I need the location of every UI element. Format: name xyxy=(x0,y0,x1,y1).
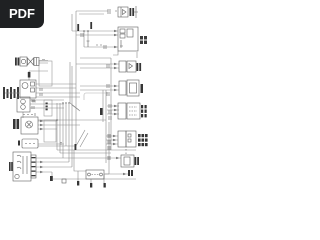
battery BT1 xyxy=(3,87,19,99)
fuse block FB1 xyxy=(86,170,104,179)
wire bundle bends bottom xyxy=(57,150,136,153)
relay box U1 xyxy=(118,27,138,51)
junction dots xyxy=(56,30,89,121)
wire bend diagonals lower xyxy=(76,130,88,147)
wire L5 feed xyxy=(38,144,76,146)
fuse F3 xyxy=(75,144,77,150)
combination switch S1 xyxy=(13,152,31,181)
fuse holder L5 xyxy=(22,139,38,148)
junction box pin xyxy=(42,59,45,61)
wire bottom stubs xyxy=(78,171,104,183)
wire bottom center xyxy=(74,150,109,174)
fuse F1 xyxy=(77,24,79,31)
connector C-S1 right xyxy=(31,155,36,178)
terminal R1 xyxy=(134,6,138,18)
ground terminal GT3 xyxy=(104,183,106,188)
connector pins mid-left xyxy=(40,88,42,96)
connector C-S1 left xyxy=(9,162,13,171)
wire right trunk xyxy=(103,58,111,174)
wire R3 feeds xyxy=(76,64,119,68)
tick L5 out xyxy=(60,143,62,145)
connector C-R7 xyxy=(135,157,140,165)
wire R2 R3 link xyxy=(136,52,138,58)
wire L2 top feed xyxy=(29,71,48,80)
wire L3 drop xyxy=(22,112,24,118)
wire L3 feeds right xyxy=(30,100,64,108)
wire horn run xyxy=(84,46,118,48)
wire R2 bottom drop xyxy=(113,51,118,55)
wire R8 feed xyxy=(105,173,128,175)
wire battery link xyxy=(5,92,20,94)
enclosure rounded center xyxy=(84,93,108,100)
sensor row R4 xyxy=(107,80,139,96)
wire R7 feed xyxy=(36,157,121,159)
connector labels U1 xyxy=(140,36,147,44)
junction box JB2 xyxy=(44,120,56,142)
connector C-R5 xyxy=(141,105,147,117)
connector C-R8 xyxy=(128,170,133,176)
wire bottom rail xyxy=(53,178,136,180)
terminal T5 xyxy=(62,179,66,183)
wire L1 output xyxy=(39,61,49,64)
wire top feed horizontal xyxy=(76,11,108,14)
wire R5 feeds xyxy=(107,106,119,114)
wire R4 feeds xyxy=(80,86,119,90)
wire center bundle verticals xyxy=(57,103,69,162)
wire L4 feeds right xyxy=(38,121,80,129)
starter motor M1 xyxy=(20,80,36,98)
resistor ballast xyxy=(28,72,31,78)
alternator G1 xyxy=(20,57,39,66)
connector ticks L3 out xyxy=(33,100,35,103)
component horn circuit R1 xyxy=(108,7,128,17)
connector C-L5 xyxy=(18,141,20,146)
wire rail B+ xyxy=(72,30,118,32)
connector C-R3 xyxy=(137,63,142,71)
wire trunk vertical left xyxy=(72,11,76,150)
connector block CB1 xyxy=(44,100,52,116)
switch unit R7 xyxy=(108,149,134,167)
module R6 xyxy=(108,131,136,150)
pin marks CB1 xyxy=(46,103,48,111)
node junction drop xyxy=(84,31,88,47)
connector C-R4 xyxy=(141,84,144,93)
wire long trunk horizontal xyxy=(38,119,106,121)
wire mid trunk verticals xyxy=(70,62,72,167)
wire rail ACC xyxy=(76,34,118,36)
wire L6 feeds xyxy=(36,162,72,176)
diode row mid xyxy=(87,41,107,49)
connector sym rail xyxy=(81,33,83,37)
arrowheads xyxy=(40,30,126,175)
ground terminal GT4 xyxy=(50,176,53,181)
wire mid rail xyxy=(80,57,111,59)
connector C-G1 xyxy=(15,58,19,66)
ignition switch L4 xyxy=(21,113,38,134)
wire R6 feeds xyxy=(106,136,118,144)
wire L2 feeds right xyxy=(36,84,80,97)
control unit R5 xyxy=(109,103,140,120)
ground terminal GT2 xyxy=(90,183,92,188)
connector C-R6 xyxy=(138,134,148,146)
sensor row R3 xyxy=(107,61,136,72)
connector C-R1 xyxy=(130,8,135,16)
junction box outline mid-left xyxy=(39,61,52,86)
connector C-L4 xyxy=(13,119,19,129)
wire bend diagonals upper xyxy=(70,103,80,111)
gauge cluster L3 xyxy=(17,97,34,112)
fuse F4 center xyxy=(100,108,103,115)
PDF badge xyxy=(0,0,44,28)
ground terminal GT1 xyxy=(77,181,79,186)
fuse F2 xyxy=(90,22,92,29)
